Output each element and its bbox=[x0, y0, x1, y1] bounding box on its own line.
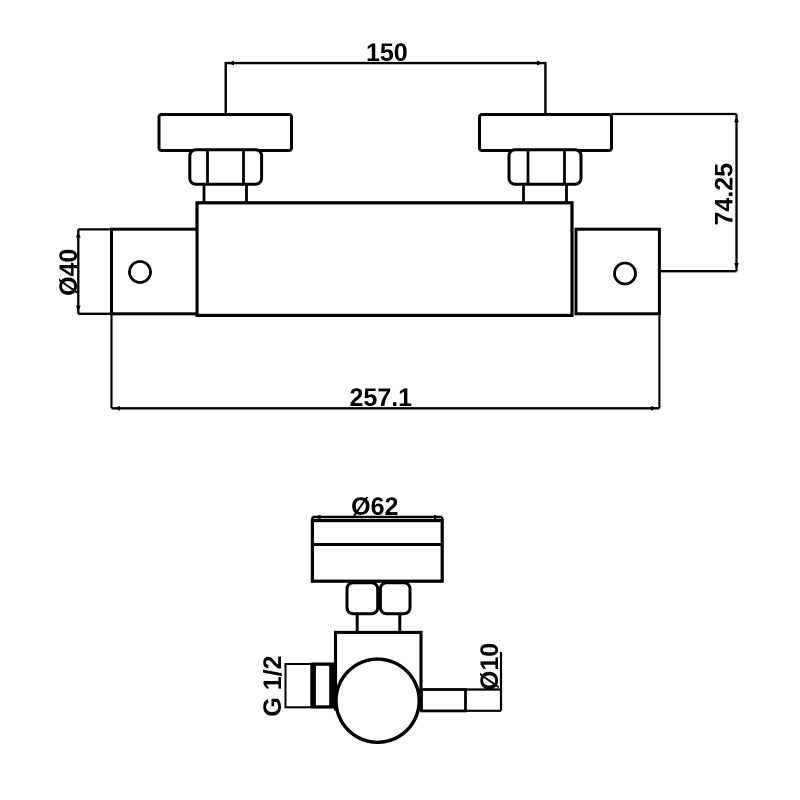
svg-text:G 1/2: G 1/2 bbox=[259, 656, 287, 717]
dim 257.1: arrowheads bbox=[113, 406, 658, 411]
right hex nut bbox=[509, 150, 581, 184]
svg-text:74.25: 74.25 bbox=[710, 163, 738, 226]
dim O40: arrowheads bbox=[76, 231, 81, 313]
handle hex nut (left facet) bbox=[347, 583, 378, 614]
dim 150: arrowheads bbox=[227, 61, 544, 66]
G 1/2 wall fitting bbox=[286, 664, 312, 707]
svg-text:257.1: 257.1 bbox=[350, 384, 413, 412]
dim 257.1: dimension line bbox=[112, 407, 660, 409]
left connector stem bbox=[204, 184, 247, 203]
svg-text:150: 150 bbox=[366, 39, 408, 67]
dim 74.25: extension + dimension line bbox=[612, 114, 737, 271]
valve body (side view) bbox=[336, 632, 422, 709]
left escutcheon plate bbox=[159, 115, 292, 151]
svg-text:Ø10: Ø10 bbox=[476, 643, 504, 690]
lower stem bbox=[357, 614, 400, 632]
dim 257.1: extension lines bbox=[112, 314, 660, 409]
handle knob bbox=[312, 521, 442, 582]
svg-text:Ø62: Ø62 bbox=[351, 493, 398, 521]
handle hex nut (right facet) bbox=[380, 583, 410, 614]
dim 74.25: arrowheads bbox=[734, 115, 739, 270]
dim O62: dimension line bbox=[312, 516, 442, 518]
handle cap split line bbox=[312, 543, 442, 546]
right end cap bbox=[576, 229, 659, 314]
right connector stem bbox=[524, 184, 567, 203]
outlet pipe bbox=[422, 690, 466, 711]
dim O62: extension ticks bbox=[312, 517, 442, 523]
left hex nut bbox=[190, 150, 262, 184]
svg-text:Ø40: Ø40 bbox=[55, 249, 83, 296]
main mixer body bbox=[197, 203, 572, 316]
temperature knob (circle) bbox=[336, 659, 419, 742]
dim O62: arrowheads bbox=[314, 515, 442, 520]
right cap screw hole bbox=[615, 263, 636, 284]
right escutcheon plate bbox=[480, 115, 612, 151]
G 1/2 inlet ring (dark collar) bbox=[311, 663, 334, 709]
left end cap bbox=[112, 229, 198, 314]
dim O40: extension + dimension line bbox=[78, 229, 111, 313]
dim 150: dimension lines bbox=[226, 63, 546, 113]
left cap screw hole bbox=[130, 262, 151, 283]
dim O10: extension + dimension line bbox=[466, 652, 502, 711]
